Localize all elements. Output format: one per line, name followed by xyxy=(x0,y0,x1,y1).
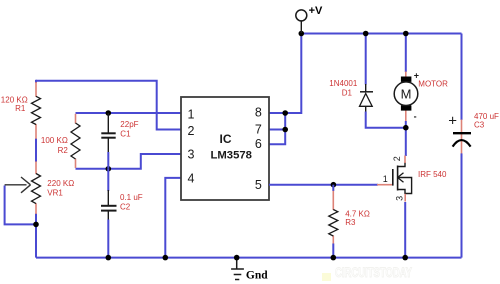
capacitor C3 branch wires xyxy=(461,34,463,258)
resistor R3 leads xyxy=(332,185,334,258)
svg-text:6: 6 xyxy=(255,137,262,151)
node motor bottom junction xyxy=(403,125,409,131)
svg-text:0.1 uF: 0.1 uF xyxy=(120,193,143,202)
motor branch wires xyxy=(405,34,407,128)
svg-text:22pF: 22pF xyxy=(120,120,138,129)
resistor R3 xyxy=(329,210,338,237)
node C1 bottom junction xyxy=(106,166,112,172)
node junction at +V rail xyxy=(299,31,305,37)
svg-text:R3: R3 xyxy=(345,218,356,227)
capacitor C2 xyxy=(101,206,117,211)
node motor top rail xyxy=(403,31,409,37)
svg-text:C2: C2 xyxy=(120,203,131,212)
svg-text:2: 2 xyxy=(188,124,195,138)
svg-text:100 KΩ: 100 KΩ xyxy=(41,136,68,145)
potentiometer VR1 xyxy=(32,174,41,204)
capacitor C2 leads xyxy=(107,169,109,258)
wire +V drop to pin 8 xyxy=(269,34,301,114)
wire pin 5 to gate xyxy=(269,184,378,186)
node ground junction xyxy=(234,255,240,261)
resistor R2 xyxy=(71,123,80,159)
capacitor C1 leads xyxy=(107,113,109,169)
wire pin 4 to ground rail xyxy=(165,178,181,258)
diode D1 branch wires xyxy=(366,34,406,128)
transistor Q1 IRF540 gate lead xyxy=(377,184,393,186)
power +V terminal xyxy=(296,5,323,33)
svg-text:IC: IC xyxy=(220,132,232,146)
svg-text:2: 2 xyxy=(392,156,402,161)
node ground rail junctions xyxy=(106,255,409,261)
svg-text:+V: +V xyxy=(309,5,323,17)
svg-text:3: 3 xyxy=(394,196,404,201)
svg-text:220 KΩ: 220 KΩ xyxy=(47,179,74,188)
svg-text:C3: C3 xyxy=(474,120,485,129)
node pin7 tie xyxy=(282,127,288,133)
wire bottom ground rail xyxy=(36,257,462,259)
resistor R1 xyxy=(32,96,41,124)
op-amp U1 IC box LM3578 xyxy=(181,97,269,200)
wire VR1 wiper return xyxy=(5,186,36,225)
node diode top rail xyxy=(363,31,369,37)
wire R2/C1 bottom to pin 3 xyxy=(76,154,182,169)
svg-text:4.7 KΩ: 4.7 KΩ xyxy=(345,209,370,218)
svg-text:MOTOR: MOTOR xyxy=(418,79,448,88)
svg-text:R1: R1 xyxy=(15,104,26,113)
svg-text:C1: C1 xyxy=(120,130,131,139)
svg-text:1: 1 xyxy=(383,174,388,184)
diode D1 xyxy=(360,92,374,107)
wire pin 7 to pin 8 tie xyxy=(269,113,285,130)
wire pin 6 tie xyxy=(269,130,285,145)
svg-text:3: 3 xyxy=(188,148,195,162)
svg-text:5: 5 xyxy=(255,178,262,192)
svg-text:CIRCUITSTODAY: CIRCUITSTODAY xyxy=(335,264,412,280)
node pin8 tie xyxy=(282,110,288,116)
wire top rail +V xyxy=(301,33,461,35)
node R3 top junction xyxy=(331,182,337,188)
resistor R2 leads xyxy=(75,114,77,168)
capacitor C3 polarized xyxy=(453,133,471,146)
svg-text:4: 4 xyxy=(188,172,195,186)
svg-text:1: 1 xyxy=(188,108,195,122)
motor M xyxy=(394,77,418,111)
potentiometer VR1 leads xyxy=(35,161,37,214)
node C1 top junction xyxy=(106,110,112,116)
svg-text:Gnd: Gnd xyxy=(246,270,268,282)
wire drain to motor node xyxy=(404,128,407,163)
svg-text:R2: R2 xyxy=(58,146,69,155)
potentiometer VR1 wiper arrow xyxy=(5,177,31,193)
transistor Q1 IRF540 body xyxy=(393,162,412,194)
ground symbol xyxy=(231,258,244,280)
svg-text:8: 8 xyxy=(255,106,262,120)
wire pin 1 to R2/C1 top xyxy=(76,112,182,114)
svg-text:D1: D1 xyxy=(342,89,353,98)
svg-text:LM3578: LM3578 xyxy=(210,150,251,162)
wire source to ground rail xyxy=(404,194,406,258)
resistor R1 leads xyxy=(35,82,37,139)
watermark xyxy=(322,264,412,281)
wire R1 top to pin 2 xyxy=(36,81,181,130)
capacitor C1 xyxy=(101,133,115,137)
svg-text:7: 7 xyxy=(255,123,262,137)
svg-text:-: - xyxy=(414,112,417,122)
svg-text:IRF 540: IRF 540 xyxy=(418,170,447,179)
svg-text:1N4001: 1N4001 xyxy=(329,79,358,88)
svg-text:+: + xyxy=(448,112,457,129)
svg-text:M: M xyxy=(401,86,412,101)
wire left branch R1-VR1 blue segments xyxy=(35,80,37,258)
node VR1 bottom junction xyxy=(33,222,39,228)
svg-text:VR1: VR1 xyxy=(47,189,63,198)
